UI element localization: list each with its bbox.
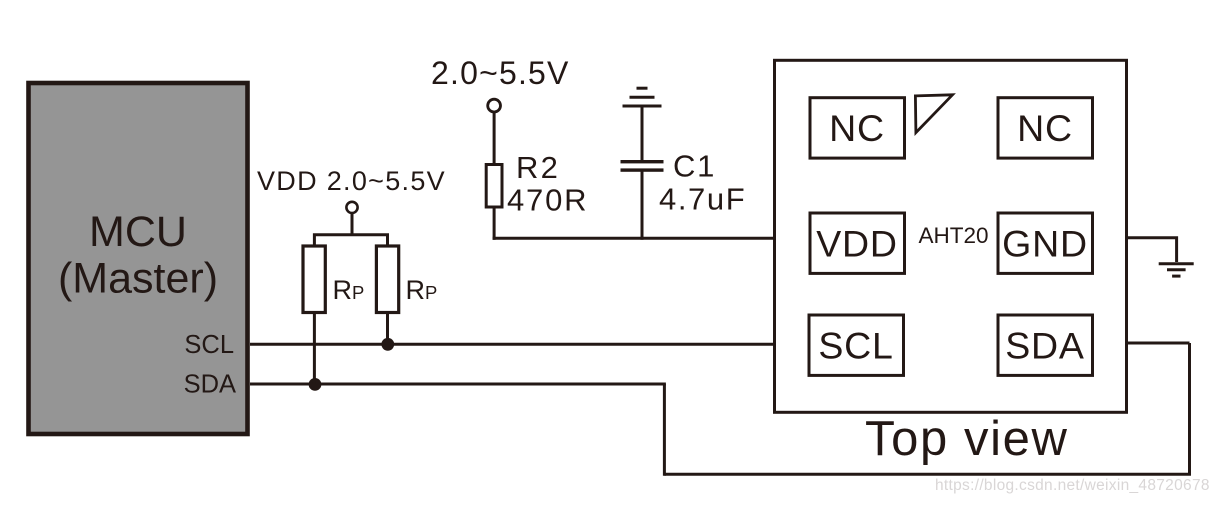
ground (right of AHT20)	[1159, 264, 1194, 276]
svg-text:470R: 470R	[507, 183, 588, 218]
wire C1 to VDD rail	[641, 171, 644, 240]
resistor R2	[486, 165, 502, 208]
svg-text:https://blog.csdn.net/weixin_4: https://blog.csdn.net/weixin_48720678	[935, 477, 1210, 494]
AHT20 package outline (Top view)	[775, 60, 1127, 412]
wire SCL (MCU to AHT20)	[250, 343, 774, 346]
svg-text:VDD: VDD	[816, 222, 898, 264]
capacitor C1	[621, 160, 664, 172]
svg-text:AHT20: AHT20	[919, 223, 989, 248]
wire SDA vertical down	[663, 384, 666, 476]
resistor Rp (left, pull-up SDA)	[303, 246, 325, 313]
pin box GND	[998, 213, 1093, 273]
wire GND to ground	[1127, 238, 1177, 262]
node junction dot SDA / Rp	[309, 378, 322, 391]
wire Rp top rail	[314, 235, 387, 247]
svg-text:GND: GND	[1002, 222, 1088, 264]
wire ground to C1	[641, 106, 644, 161]
svg-text:4.7uF: 4.7uF	[659, 182, 746, 217]
wire R2 to VDD rail	[493, 207, 496, 240]
svg-text:SDA: SDA	[184, 371, 236, 399]
wire SDA into chip right edge	[1127, 342, 1190, 345]
wire SDA right vertical up	[1188, 343, 1191, 474]
pin box NC (top-left)	[810, 98, 905, 158]
pin box NC (top-right)	[998, 98, 1093, 158]
svg-text:Top view: Top view	[865, 412, 1068, 466]
resistor Rp (right, pull-up SCL)	[376, 246, 398, 313]
svg-text:NC: NC	[829, 107, 885, 149]
svg-text:R2: R2	[516, 150, 560, 185]
svg-text:SDA: SDA	[1005, 325, 1085, 367]
VDD terminal circle	[346, 202, 357, 213]
svg-text:SCL: SCL	[818, 325, 893, 367]
pin box SCL	[809, 315, 904, 375]
svg-text:(Master): (Master)	[58, 255, 218, 303]
svg-text:C1: C1	[673, 149, 716, 184]
wire VDD stem	[351, 213, 354, 236]
node junction dot SCL / Rp	[381, 338, 394, 351]
wire SDA horizontal from MCU	[250, 383, 666, 386]
svg-text:VDD 2.0~5.5V: VDD 2.0~5.5V	[257, 166, 446, 196]
MCU (Master) block	[29, 83, 248, 434]
pin box SDA	[998, 315, 1093, 375]
svg-text:MCU: MCU	[89, 208, 187, 256]
wire Rp left to SDA	[313, 313, 316, 385]
ground (above C1)	[623, 88, 662, 106]
wire SDA bottom return	[664, 473, 1191, 476]
pin 1 marker triangle	[915, 95, 952, 133]
svg-text:NC: NC	[1017, 107, 1073, 149]
supply terminal circle	[488, 99, 501, 112]
svg-text:2.0~5.5V: 2.0~5.5V	[431, 55, 570, 91]
svg-text:SCL: SCL	[184, 331, 234, 359]
wire Rp right to SCL	[386, 313, 389, 345]
wire supply to R2	[493, 112, 496, 165]
pin box VDD	[810, 213, 905, 273]
wire VDD rail to chip	[493, 237, 774, 240]
